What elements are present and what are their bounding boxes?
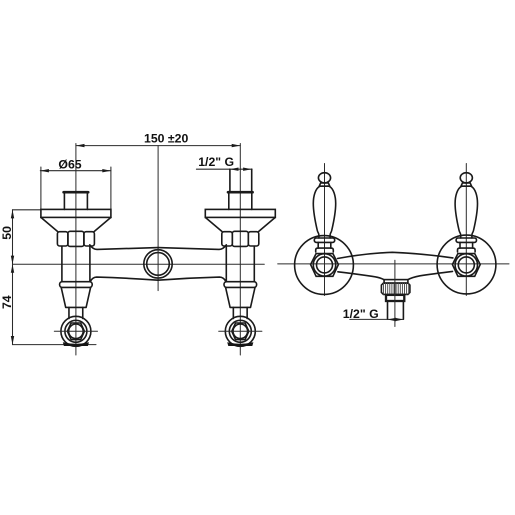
bonnet (458, 248, 476, 252)
neck (69, 307, 83, 318)
O65 arrow right (102, 169, 111, 172)
spout pipe (388, 301, 404, 319)
valve circle outer (455, 254, 477, 276)
handle body right (471, 186, 477, 238)
dim 50 arrow up (11, 210, 14, 219)
body horizontal centerline (13, 263, 265, 265)
svg-text:50: 50 (0, 226, 14, 240)
handle ball collar (461, 183, 472, 186)
swivel horizontal centerline (219, 330, 262, 332)
escutcheon circle (295, 236, 354, 295)
escutcheon band (41, 209, 111, 217)
dimension 150 arrow left (76, 144, 85, 147)
1/2 G arrow left (230, 168, 239, 171)
swivel inner circle (69, 324, 84, 339)
central mixer circle inner (147, 253, 170, 276)
lower cone (226, 287, 255, 307)
handle centerline (324, 164, 326, 296)
spout flange (384, 280, 408, 284)
bridge lower-left edge (90, 277, 157, 281)
collar ring (60, 282, 93, 288)
spout centerline (394, 260, 396, 326)
handle centerline (465, 164, 467, 296)
valve circle inner (458, 257, 474, 273)
right view horizontal centerline (278, 263, 509, 265)
handle washer (456, 238, 476, 242)
valve circle inner (317, 257, 333, 273)
hex nut left facet (222, 232, 233, 246)
spout nut band (thick) (386, 295, 404, 301)
pipe top thick edge (228, 191, 253, 194)
1/2 G arrow left (right view) (388, 318, 397, 321)
svg-text:1/2" G: 1/2" G (343, 307, 379, 321)
swivel outer circle (61, 316, 91, 346)
O65 extension line right (110, 167, 112, 209)
bridge arm upper edge (338, 252, 453, 258)
svg-text:150 ±20: 150 ±20 (144, 131, 189, 145)
dimension 1/2" G (left view) leader line (196, 168, 252, 170)
handle washer (314, 238, 334, 242)
escutcheon cone right (94, 217, 111, 231)
swivel ring (65, 320, 87, 342)
bridge arm lower-right edge (408, 271, 453, 279)
O65 extension line left (40, 167, 42, 209)
hex nut middle facet (68, 231, 84, 246)
handle body right (329, 186, 335, 238)
knurl lines (384, 283, 409, 294)
valve hex nut (452, 254, 480, 277)
escutcheon cone left (41, 217, 58, 231)
escutcheon circle (437, 235, 496, 294)
pipe below nut (62, 246, 90, 281)
handle body left (313, 186, 319, 238)
handle neck (318, 242, 331, 248)
1/2 G arrow right (243, 168, 252, 171)
dimension 150 +-20 line (76, 145, 240, 147)
column centerline (239, 144, 241, 356)
neck (233, 307, 247, 318)
dim 74 arrow down (11, 336, 14, 345)
valve hex nut (311, 254, 339, 277)
column centerline (75, 144, 77, 356)
swivel inner circle (233, 324, 248, 339)
extension line top (y 209.8) (13, 209, 41, 211)
vertical dimension line 50 / 74 (13, 210, 97, 345)
dimension 150 arrow right (232, 144, 241, 147)
svg-text:1/2" G: 1/2" G (198, 155, 234, 169)
pipe below nut (226, 246, 254, 281)
central vertical centerline (157, 146, 159, 291)
collar ring (224, 282, 257, 288)
swivel outer circle (225, 316, 255, 346)
pipe top rect (229, 192, 252, 209)
escutcheon band (205, 209, 275, 217)
swivel hexagon (67, 323, 84, 340)
O65 arrow left (40, 169, 49, 172)
handle neck (460, 242, 473, 248)
svg-text:Ø65: Ø65 (58, 158, 81, 172)
1/2 G arrow right (right view) (395, 318, 404, 321)
swivel hexagon (232, 323, 249, 340)
pipe top thick edge (64, 191, 89, 194)
dimension O65 line (40, 167, 111, 209)
swivel crescent (dark) (227, 342, 253, 346)
pipe top rect (64, 192, 87, 209)
handle body left (455, 186, 461, 238)
hex nut middle facet (232, 231, 248, 246)
escutcheon cone left (205, 217, 222, 231)
swivel horizontal centerline (54, 330, 97, 332)
bridge arm lower-left edge (338, 272, 384, 280)
bridge upper-right edge (158, 245, 226, 250)
handle ball (318, 173, 330, 183)
valve circle outer (313, 254, 335, 276)
spout knurled ring (381, 283, 410, 294)
handle collar dotted band (320, 185, 329, 187)
hex nut right facet (84, 232, 95, 246)
handle ball (460, 173, 472, 183)
thread pipe 1/2 G (230, 169, 252, 192)
handle collar dotted band (462, 185, 471, 187)
handle ball collar (319, 183, 330, 186)
extension line bottom (y 344.6) (13, 344, 97, 346)
swivel crescent (dark) (63, 342, 89, 346)
hex nut left facet (57, 232, 68, 246)
bridge upper-left edge (90, 245, 158, 250)
dim 50 arrow down / 74 arrow up (diamond at middle) (11, 256, 14, 265)
lower cone (61, 287, 90, 307)
escutcheon cone right (259, 217, 276, 231)
1/2 G leader line (right view) (350, 318, 404, 320)
hex nut right facet (248, 232, 258, 246)
bridge lower-right edge (158, 277, 226, 281)
bonnet (316, 248, 334, 252)
swivel ring (229, 320, 251, 342)
central mixer circle outer (144, 250, 172, 278)
svg-text:74: 74 (0, 295, 14, 309)
